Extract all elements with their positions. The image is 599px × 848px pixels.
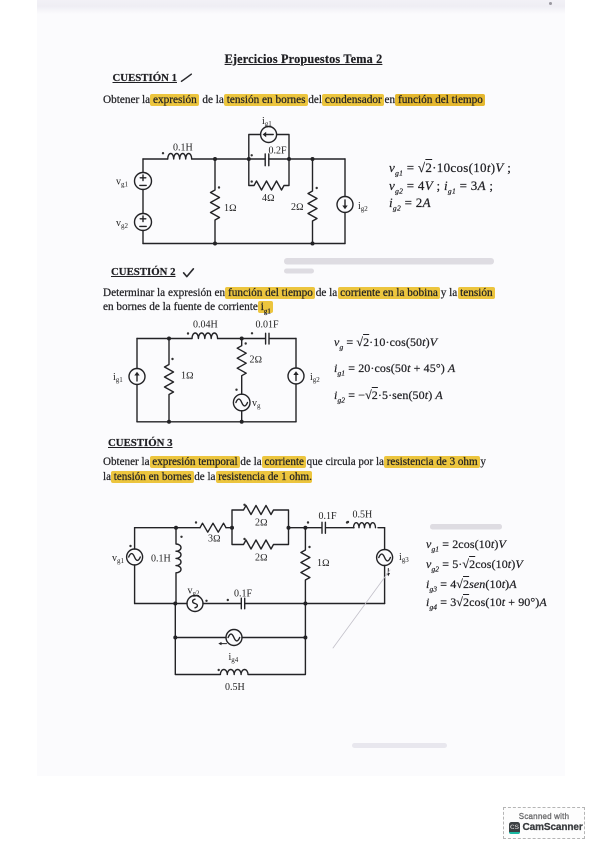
svg-text:ig2: ig2	[310, 372, 320, 384]
resistor R 2ohm (parallel bottom)	[232, 528, 289, 564]
CamScanner badge	[503, 807, 585, 839]
current source ig3 (AC)	[377, 528, 410, 604]
voltage source vg (AC)	[233, 389, 261, 422]
node M (C3 top, box right)	[287, 526, 291, 530]
resistor R 1ohm	[165, 339, 195, 422]
node O (C3 mid, left)	[173, 602, 177, 606]
svg-text:1Ω: 1Ω	[224, 203, 237, 214]
equations Q1	[389, 160, 511, 178]
resistor R 1ohm	[301, 528, 330, 604]
node N (C3 top, 1ohm branch)	[303, 526, 307, 530]
svg-text:0.1H: 0.1H	[151, 554, 171, 565]
wire: C2 top rail	[137, 338, 296, 340]
equations Q3	[426, 537, 506, 553]
paragraph 3	[103, 455, 486, 484]
voltage source vg2	[116, 214, 152, 231]
svg-text:ig3: ig3	[399, 552, 409, 564]
node H (C2 top, 2ohm)	[240, 337, 244, 341]
svg-text:vg2: vg2	[116, 218, 129, 230]
node K (C3 top, 0.1H branch)	[174, 526, 178, 530]
resistor R 2ohm (parallel top)	[232, 504, 289, 529]
svg-text:0.01F: 0.01F	[256, 320, 280, 331]
node L (C3 top, box left)	[230, 526, 234, 530]
wire: C3 ig4 loop verticals	[175, 604, 305, 675]
wire: C2 bottom rail	[137, 421, 296, 423]
svg-text:0.04H: 0.04H	[193, 320, 218, 331]
wire: C1 bottom rail	[143, 243, 345, 245]
voltage source vg1 (AC)	[112, 528, 143, 604]
svg-text:vg: vg	[252, 398, 261, 410]
resistor R1 1ohm	[211, 159, 238, 244]
node P (C3 mid, 1ohm bottom)	[303, 602, 307, 606]
current source ig1	[113, 369, 145, 385]
capacitor C 0.01F	[251, 320, 279, 345]
capacitor C 0.1F (mid)	[227, 589, 253, 609]
heading 3	[108, 437, 173, 449]
node C (C1 top, block right)	[287, 157, 291, 161]
title	[4, 52, 599, 67]
capacitor C 0.2F	[251, 146, 288, 166]
svg-text:2Ω: 2Ω	[255, 553, 268, 564]
stray dot top right	[549, 2, 552, 5]
paragraph 1	[103, 94, 483, 106]
scan scratch artifact	[333, 570, 390, 648]
node D (C1 top, 2ohm)	[311, 157, 315, 161]
resistor R2 2ohm	[291, 159, 318, 244]
inductor L 0.5H (bottom)	[175, 669, 305, 693]
node Q (C3 ig4 bar left)	[173, 636, 177, 640]
voltage source vg2 (AC)	[187, 586, 208, 612]
svg-text:ig4: ig4	[229, 652, 239, 664]
svg-text:0.1H: 0.1H	[173, 143, 193, 154]
wire: C3 top rail	[135, 527, 385, 529]
svg-text:ig1: ig1	[113, 372, 123, 384]
heading 1	[113, 72, 178, 84]
checkmark question 2	[184, 269, 194, 277]
svg-text:2Ω: 2Ω	[250, 355, 263, 366]
node J (C2 bottom, vg)	[240, 420, 244, 424]
svg-text:vg2: vg2	[188, 586, 201, 598]
svg-text:0.2F: 0.2F	[269, 146, 288, 157]
current source ig2	[337, 159, 368, 244]
inductor L1 0.1H	[162, 143, 193, 160]
svg-text:4Ω: 4Ω	[262, 193, 275, 204]
current source ig1 (top loop)	[249, 116, 289, 159]
equations Q2	[334, 335, 437, 351]
node F (C1 bottom, 2ohm)	[311, 242, 315, 246]
resistor R 4ohm (bottom loop)	[249, 159, 289, 204]
svg-text:ig2: ig2	[358, 201, 368, 213]
inductor L 0.1H (vertical)	[151, 528, 183, 604]
wire: C2 left rail	[136, 339, 138, 422]
svg-text:vg1: vg1	[116, 177, 129, 189]
inductor L 0.5H (top)	[347, 510, 376, 528]
svg-text:ig1: ig1	[262, 116, 272, 128]
current source ig4 (AC)	[175, 630, 305, 665]
node A (C1 top, 1ohm)	[213, 157, 217, 161]
current source ig2	[288, 368, 320, 384]
svg-text:0.1F: 0.1F	[319, 511, 338, 522]
node I (C2 bottom, 1ohm)	[167, 420, 171, 424]
svg-text:0.5H: 0.5H	[353, 510, 373, 521]
svg-text:vg1: vg1	[112, 553, 125, 565]
svg-text:0.5H: 0.5H	[225, 682, 245, 693]
svg-text:2Ω: 2Ω	[255, 518, 268, 529]
wire: C2 right rail	[295, 339, 297, 422]
heading 2	[111, 266, 176, 278]
svg-text:1Ω: 1Ω	[317, 558, 330, 569]
resistor R 2ohm	[237, 339, 262, 395]
node B (C1 top, block left)	[247, 157, 251, 161]
paragraph 2	[103, 287, 493, 318]
svg-text:0.1F: 0.1F	[234, 589, 253, 600]
capacitor C 0.1F (top)	[307, 511, 348, 533]
node E (C1 bottom, 1ohm)	[213, 242, 217, 246]
resistor R 3ohm	[195, 521, 226, 544]
voltage source vg1	[116, 173, 152, 190]
checkmark question 1	[182, 74, 192, 81]
svg-text:1Ω: 1Ω	[181, 371, 194, 382]
node G (C2 top, 1ohm)	[167, 337, 171, 341]
node R (C3 ig4 bar right)	[303, 636, 307, 640]
wire: C1 top rail	[143, 158, 345, 160]
top scan band	[37, 0, 565, 14]
wire: C3 mid rail	[135, 603, 385, 605]
svg-text:2Ω: 2Ω	[291, 202, 304, 213]
inductor L 0.04H	[187, 320, 218, 339]
wire: C1 left rail	[142, 159, 144, 244]
svg-text:3Ω: 3Ω	[208, 534, 221, 545]
